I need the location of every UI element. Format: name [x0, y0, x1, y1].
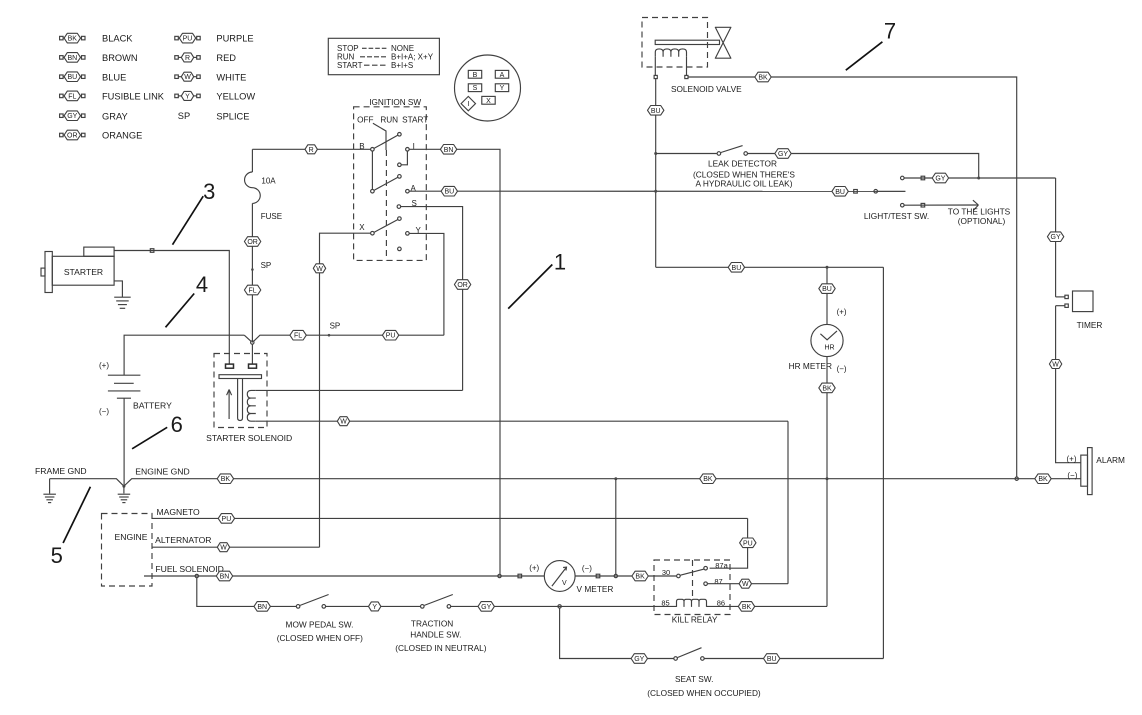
- wire tag W: [313, 264, 325, 273]
- svg-text:BK: BK: [822, 385, 832, 392]
- connector BK row solenoid-valve drop: [1015, 477, 1018, 480]
- wire I contact L-link: [401, 151, 407, 165]
- svg-text:MOW PEDAL SW.: MOW PEDAL SW.: [286, 620, 354, 630]
- svg-text:A HYDRAULIC OIL LEAK): A HYDRAULIC OIL LEAK): [696, 179, 793, 189]
- svg-text:TO THE LIGHTS: TO THE LIGHTS: [948, 207, 1011, 217]
- battery junction dip: [244, 335, 251, 341]
- wire GY light row: [904, 177, 1055, 179]
- frame ground symbol: [43, 494, 56, 502]
- svg-text:FL: FL: [249, 288, 257, 295]
- starter solenoid coil: [247, 390, 256, 421]
- svg-text:YELLOW: YELLOW: [216, 92, 255, 102]
- svg-text:BROWN: BROWN: [102, 53, 138, 63]
- svg-text:PU: PU: [222, 516, 232, 523]
- svg-text:TIMER: TIMER: [1077, 320, 1103, 330]
- legend tag Y: [175, 91, 200, 100]
- wire junction to FL: [254, 335, 298, 341]
- leak detector switch: [717, 146, 747, 156]
- junction BK row to V meter branch: [614, 477, 617, 480]
- wire tag GY: [478, 602, 494, 612]
- svg-text:HANDLE SW.: HANDLE SW.: [410, 630, 461, 640]
- svg-text:GY: GY: [67, 113, 77, 120]
- callout 4 leader: [166, 294, 195, 328]
- wire tag BK: [700, 474, 716, 484]
- wire HR meter to kill relay BK: [826, 357, 828, 607]
- svg-text:BU: BU: [822, 286, 832, 293]
- wire tag PU: [740, 538, 756, 548]
- svg-text:BK: BK: [703, 476, 713, 483]
- wire tag PU: [382, 330, 398, 340]
- wire tag BU: [441, 186, 457, 196]
- wire R: fuse top to ignition B: [252, 148, 370, 150]
- wire fuse junction to starter solenoid terminal: [251, 344, 253, 364]
- wire to the lights with arrow: [904, 200, 978, 210]
- wire tag OR: [244, 237, 260, 247]
- svg-text:ENGINE GND: ENGINE GND: [135, 466, 189, 476]
- wire alternator W row: [152, 546, 320, 548]
- svg-text:RED: RED: [216, 53, 236, 63]
- wire GY to timer: [1055, 178, 1057, 297]
- junction HR riser: [826, 266, 829, 269]
- svg-text:ALARM: ALARM: [1096, 455, 1125, 465]
- wire 87 to W: [708, 583, 788, 585]
- solenoid valve terminal left: [654, 75, 657, 78]
- connector at minus junction: [614, 574, 617, 577]
- ignition switch inner dashed divider: [385, 150, 387, 260]
- legend tag BN: [60, 53, 85, 63]
- svg-text:(OPTIONAL): (OPTIONAL): [958, 216, 1006, 226]
- contact Y: [406, 232, 410, 236]
- solenoid valve dashed box: [642, 18, 708, 68]
- svg-text:B+I+S: B+I+S: [391, 61, 413, 70]
- svg-text:BN: BN: [257, 604, 267, 611]
- V meter plus square: [518, 574, 522, 578]
- contact run-link: [398, 163, 402, 167]
- svg-text:W: W: [184, 74, 191, 81]
- svg-text:R: R: [309, 147, 314, 154]
- wire tag W: [337, 417, 349, 426]
- svg-text:B: B: [473, 72, 478, 79]
- svg-text:GY: GY: [935, 176, 945, 183]
- svg-text:BU: BU: [67, 74, 77, 81]
- wire solenoid coil bottom W row: [256, 420, 788, 422]
- engine dashed box: [102, 514, 153, 587]
- junction BN at V meter plus: [498, 574, 501, 577]
- wire tag GY: [631, 654, 647, 664]
- connector pin B: [468, 70, 481, 78]
- callout 5 leader: [63, 487, 90, 543]
- OFF position marker line: [373, 123, 386, 150]
- switch arm pole2: [374, 177, 398, 190]
- svg-text:87a: 87a: [715, 561, 728, 570]
- wire HR riser upper: [826, 267, 828, 324]
- wire to leak detector: [656, 153, 717, 155]
- svg-text:HR METER: HR METER: [789, 361, 832, 371]
- wire timer to alarm plus: [1056, 306, 1081, 463]
- svg-text:5: 5: [51, 543, 63, 568]
- svg-text:10A: 10A: [261, 176, 276, 185]
- svg-text:START: START: [402, 116, 428, 125]
- ground junction: [122, 485, 125, 488]
- contact pole2 target: [398, 175, 402, 179]
- junction GY light row: [977, 177, 980, 180]
- svg-text:1: 1: [554, 250, 566, 275]
- svg-text:BN: BN: [220, 574, 230, 581]
- kill relay contact 30: [677, 574, 681, 578]
- svg-text:(+): (+): [99, 361, 109, 370]
- engine ground stub: [123, 486, 125, 493]
- seat switch: [674, 648, 704, 661]
- wire starter output to solenoid: [114, 251, 229, 365]
- legend row STOP - NONE: [337, 44, 414, 53]
- timer pin square upper: [1065, 295, 1068, 298]
- svg-text:6: 6: [171, 412, 183, 437]
- starter solenoid terminal 2: [249, 364, 257, 368]
- svg-text:BK: BK: [1038, 476, 1048, 483]
- contact START top: [398, 133, 402, 137]
- kill relay coil: [677, 599, 707, 607]
- svg-text:PU: PU: [743, 540, 753, 547]
- svg-text:STARTER SOLENOID: STARTER SOLENOID: [206, 433, 292, 443]
- callout 6 leader: [132, 427, 167, 449]
- light/test switch pole GY: [901, 176, 905, 180]
- contact spare: [398, 247, 402, 251]
- frame ground stub: [49, 479, 51, 494]
- svg-text:MAGNETO: MAGNETO: [156, 507, 200, 517]
- svg-text:3: 3: [203, 179, 215, 204]
- svg-text:FUEL SOLENOID: FUEL SOLENOID: [155, 564, 223, 574]
- svg-text:FL: FL: [68, 93, 76, 100]
- wire tag BU: [648, 106, 664, 116]
- wire B to lower pole: [371, 151, 373, 189]
- wire ignition I to BN branch: [409, 149, 500, 574]
- svg-text:SP: SP: [330, 321, 341, 330]
- svg-text:ALTERNATOR: ALTERNATOR: [155, 535, 211, 545]
- contact A: [406, 189, 410, 193]
- connector pin S: [468, 84, 481, 92]
- svg-text:BU: BU: [651, 108, 661, 115]
- wire ignition X to W branch: [320, 233, 371, 547]
- svg-text:W: W: [316, 266, 323, 273]
- svg-text:OR: OR: [457, 282, 468, 289]
- svg-text:OFF: OFF: [357, 116, 373, 125]
- wire tag W: [739, 579, 751, 588]
- svg-text:A: A: [500, 72, 505, 79]
- legend tag PU: [175, 33, 200, 43]
- wire tag BK: [632, 571, 648, 581]
- svg-text:RUN: RUN: [380, 116, 398, 125]
- wire tag BU: [832, 187, 848, 197]
- wire tag Y: [369, 602, 381, 611]
- wire fuse vertical upper: [251, 149, 253, 172]
- svg-text:PURPLE: PURPLE: [216, 34, 253, 44]
- wire PU drop to kill relay 87a: [710, 518, 748, 568]
- kill relay contact 87a: [704, 566, 708, 570]
- svg-text:GY: GY: [481, 604, 491, 611]
- wire coil 86 to BK: [707, 605, 828, 607]
- svg-text:BATTERY: BATTERY: [133, 400, 172, 410]
- svg-text:(−): (−): [837, 365, 847, 374]
- wire tag PU: [218, 514, 234, 524]
- legend tag OR: [60, 130, 85, 140]
- svg-text:FRAME GND: FRAME GND: [35, 466, 87, 476]
- kill relay contact 87: [704, 582, 708, 586]
- svg-text:GY: GY: [778, 151, 788, 158]
- starter solenoid plunger T-bar: [219, 375, 262, 421]
- svg-text:(CLOSED IN NEUTRAL): (CLOSED IN NEUTRAL): [395, 643, 487, 653]
- mow pedal switch: [296, 595, 328, 609]
- svg-text:V: V: [562, 580, 567, 587]
- traction handle switch: [421, 595, 453, 609]
- wire tag GY: [775, 149, 791, 159]
- svg-text:BLACK: BLACK: [102, 34, 133, 44]
- HR meter: [811, 324, 843, 356]
- svg-text:PU: PU: [386, 333, 396, 340]
- wire BK row drop to V meter minus: [615, 479, 617, 575]
- splice SP battery row: [328, 334, 331, 337]
- solenoid valve plunger bar: [655, 40, 719, 44]
- svg-text:BK: BK: [758, 75, 768, 82]
- wire BK solenoid valve row: [688, 77, 1017, 477]
- junction BU row ignition A: [654, 190, 657, 193]
- svg-text:HR: HR: [824, 344, 834, 351]
- svg-text:X: X: [486, 98, 491, 105]
- svg-text:BN: BN: [444, 147, 454, 154]
- starter ground symbol: [114, 297, 131, 308]
- contact S: [397, 205, 401, 209]
- svg-text:BLUE: BLUE: [102, 72, 126, 82]
- kill relay inner dashed divider: [692, 560, 694, 600]
- svg-text:(+): (+): [529, 564, 539, 573]
- wire tag R: [305, 145, 317, 154]
- wire tag BK: [755, 72, 771, 82]
- svg-text:KILL RELAY: KILL RELAY: [672, 614, 718, 624]
- wire tag BU: [728, 263, 744, 273]
- svg-text:FUSIBLE LINK: FUSIBLE LINK: [102, 92, 165, 102]
- svg-text:V METER: V METER: [577, 584, 614, 594]
- legend row START - B+I+S: [337, 61, 413, 70]
- connector pin A: [495, 70, 508, 78]
- starter solenoid actuation arrow: [227, 390, 232, 420]
- wire tag BN: [216, 571, 232, 581]
- svg-text:FUSE: FUSE: [261, 212, 282, 221]
- wire tag BN: [254, 602, 270, 612]
- wire seat switch to BU riser: [704, 658, 883, 660]
- wire tag FL: [290, 330, 306, 340]
- wire leak detector GY: [748, 154, 979, 179]
- wire fuel branch drop: [197, 578, 296, 607]
- junction GY to seat switch branch: [558, 605, 561, 608]
- legend row RUN - B+I+A; X+Y: [337, 53, 434, 62]
- wire FL to PU row: [306, 334, 444, 336]
- svg-text:BK: BK: [742, 604, 752, 611]
- wire battery negative to engine ground: [123, 398, 125, 486]
- svg-text:BU: BU: [444, 189, 454, 196]
- timer pin stub lower: [1056, 305, 1065, 307]
- svg-text:SOLENOID VALVE: SOLENOID VALVE: [671, 84, 742, 94]
- fuel solenoid branch connector: [195, 574, 198, 577]
- svg-text:START: START: [337, 61, 363, 70]
- junction connector on fuse line: [251, 341, 254, 344]
- svg-text:(−): (−): [582, 564, 592, 573]
- svg-text:STARTER: STARTER: [64, 267, 103, 277]
- switch arm X pole: [374, 220, 398, 233]
- battery junction connector: [251, 341, 253, 343]
- switch-position legend box: [328, 38, 439, 74]
- light/test switch pole lights: [901, 203, 905, 207]
- svg-text:BU: BU: [767, 656, 777, 663]
- wire tag BK: [738, 602, 754, 612]
- wire battery positive: [124, 335, 244, 375]
- connector square on starter wire: [150, 249, 154, 253]
- splice SP upper: [251, 268, 254, 271]
- wire tag BU: [764, 654, 780, 664]
- contact X: [371, 231, 375, 235]
- legend tag BK: [60, 33, 85, 43]
- timer pin square lower: [1065, 304, 1068, 307]
- svg-text:4: 4: [196, 272, 208, 297]
- svg-text:(−): (−): [1067, 471, 1077, 480]
- solenoid valve butterfly symbol: [715, 27, 731, 58]
- starter motor: [41, 247, 114, 292]
- wire tag OR: [454, 280, 470, 290]
- starter solenoid dashed box: [214, 354, 267, 428]
- wire BU row to HR riser: [656, 266, 884, 268]
- contact I: [406, 148, 410, 152]
- connector pin I (diamond): [461, 96, 475, 110]
- svg-text:7: 7: [884, 19, 896, 44]
- wire tag BK: [217, 474, 233, 484]
- wire BU riser: [882, 267, 884, 658]
- svg-text:30: 30: [662, 568, 670, 577]
- wire tag BK: [1035, 474, 1051, 484]
- svg-text:OR: OR: [247, 239, 258, 246]
- wire ignition A BU row: [409, 190, 905, 192]
- svg-text:W: W: [742, 581, 749, 588]
- contact B: [371, 148, 375, 152]
- alarm symbol: [1081, 448, 1092, 495]
- battery symbol: [108, 375, 140, 398]
- svg-text:IGNITION SW: IGNITION SW: [369, 98, 421, 107]
- wire tag FL: [244, 285, 260, 295]
- wire magneto PU row: [152, 517, 748, 519]
- svg-text:TRACTION: TRACTION: [411, 619, 453, 629]
- svg-text:(CLOSED WHEN OFF): (CLOSED WHEN OFF): [277, 633, 363, 643]
- svg-text:Y: Y: [185, 93, 190, 100]
- svg-text:I: I: [467, 101, 469, 108]
- legend tag R: [175, 53, 200, 62]
- junction BK row to HR meter line: [826, 477, 829, 480]
- contact pole2: [371, 189, 375, 193]
- svg-text:LIGHT/TEST SW.: LIGHT/TEST SW.: [864, 211, 929, 221]
- wire tag BN: [440, 145, 456, 155]
- svg-text:BU: BU: [732, 265, 742, 272]
- ignition switch dashed box: [354, 107, 427, 261]
- svg-text:GY: GY: [634, 656, 644, 663]
- svg-text:OR: OR: [67, 133, 78, 140]
- svg-text:GY: GY: [1051, 234, 1061, 241]
- svg-text:Y: Y: [372, 604, 377, 611]
- legend tag W: [175, 72, 200, 81]
- svg-text:FL: FL: [294, 333, 302, 340]
- light/test switch pole BU: [874, 190, 878, 194]
- V meter: [544, 561, 575, 592]
- svg-text:WHITE: WHITE: [216, 72, 246, 82]
- svg-text:(CLOSED WHEN OCCUPIED): (CLOSED WHEN OCCUPIED): [647, 688, 761, 698]
- svg-text:LEAK DETECTOR: LEAK DETECTOR: [708, 159, 777, 169]
- svg-text:R: R: [185, 55, 190, 62]
- legend tag FL: [60, 91, 85, 101]
- contact X target: [398, 217, 402, 221]
- wire engine ground BK row: [124, 479, 1081, 487]
- switch arm B-START: [374, 135, 398, 148]
- svg-text:Y: Y: [500, 85, 505, 92]
- starter ground stub: [114, 281, 122, 297]
- legend tag BU: [60, 72, 85, 82]
- wire tag BK: [819, 383, 835, 393]
- svg-text:ENGINE: ENGINE: [115, 532, 148, 542]
- wire ignition S to OR branch: [401, 207, 463, 391]
- solenoid valve terminal right: [685, 75, 688, 78]
- svg-text:(+): (+): [837, 308, 847, 317]
- wire mow pedal to traction: [326, 605, 421, 607]
- callout 7 leader: [846, 42, 883, 70]
- svg-text:S: S: [473, 85, 478, 92]
- wire W row drop to kill relay 87: [787, 421, 789, 584]
- starter solenoid terminal 1: [226, 364, 234, 368]
- connector pin Y: [495, 84, 508, 92]
- svg-text:GRAY: GRAY: [102, 111, 128, 121]
- svg-text:(−): (−): [99, 407, 109, 416]
- timer pin stub upper: [1056, 296, 1065, 298]
- wire V meter minus to kill relay 30: [575, 575, 676, 577]
- wire traction to kill relay coil: [451, 605, 677, 607]
- ignition switch connector view: [455, 55, 521, 121]
- callout 1 leader: [508, 265, 552, 309]
- wire tag W: [1049, 360, 1061, 369]
- wire frame ground: [50, 479, 124, 487]
- legend tag GY: [60, 111, 85, 121]
- svg-text:BU: BU: [835, 189, 845, 196]
- connector pin X: [482, 96, 495, 104]
- wire fuse to junction: [251, 203, 253, 342]
- kill relay switch arm: [680, 569, 703, 575]
- callout 3 leader: [173, 196, 204, 245]
- wire OR branch to solenoid coil top: [256, 389, 463, 391]
- junction leak detector: [654, 152, 657, 155]
- timer box: [1073, 291, 1094, 312]
- wire tag GY: [932, 173, 948, 183]
- svg-text:SP: SP: [178, 111, 190, 121]
- V meter minus square: [596, 574, 600, 578]
- wire fuel solenoid BN row: [144, 575, 544, 577]
- wire seat switch branch drop: [560, 608, 674, 658]
- wire BU solenoid valve drop: [655, 79, 657, 268]
- wire tag BU: [819, 284, 835, 294]
- solenoid valve coil: [655, 49, 686, 57]
- fuse 10A symbol: [245, 172, 261, 203]
- svg-text:85: 85: [661, 598, 669, 607]
- svg-text:W: W: [340, 419, 347, 426]
- svg-text:BN: BN: [67, 55, 77, 62]
- svg-text:W: W: [220, 545, 227, 552]
- svg-text:(+): (+): [1067, 454, 1077, 463]
- svg-text:BK: BK: [68, 36, 78, 43]
- wire BU stub after switch: [878, 190, 906, 192]
- wire tag W: [217, 543, 229, 552]
- svg-text:X: X: [359, 223, 365, 232]
- svg-text:87: 87: [714, 577, 722, 586]
